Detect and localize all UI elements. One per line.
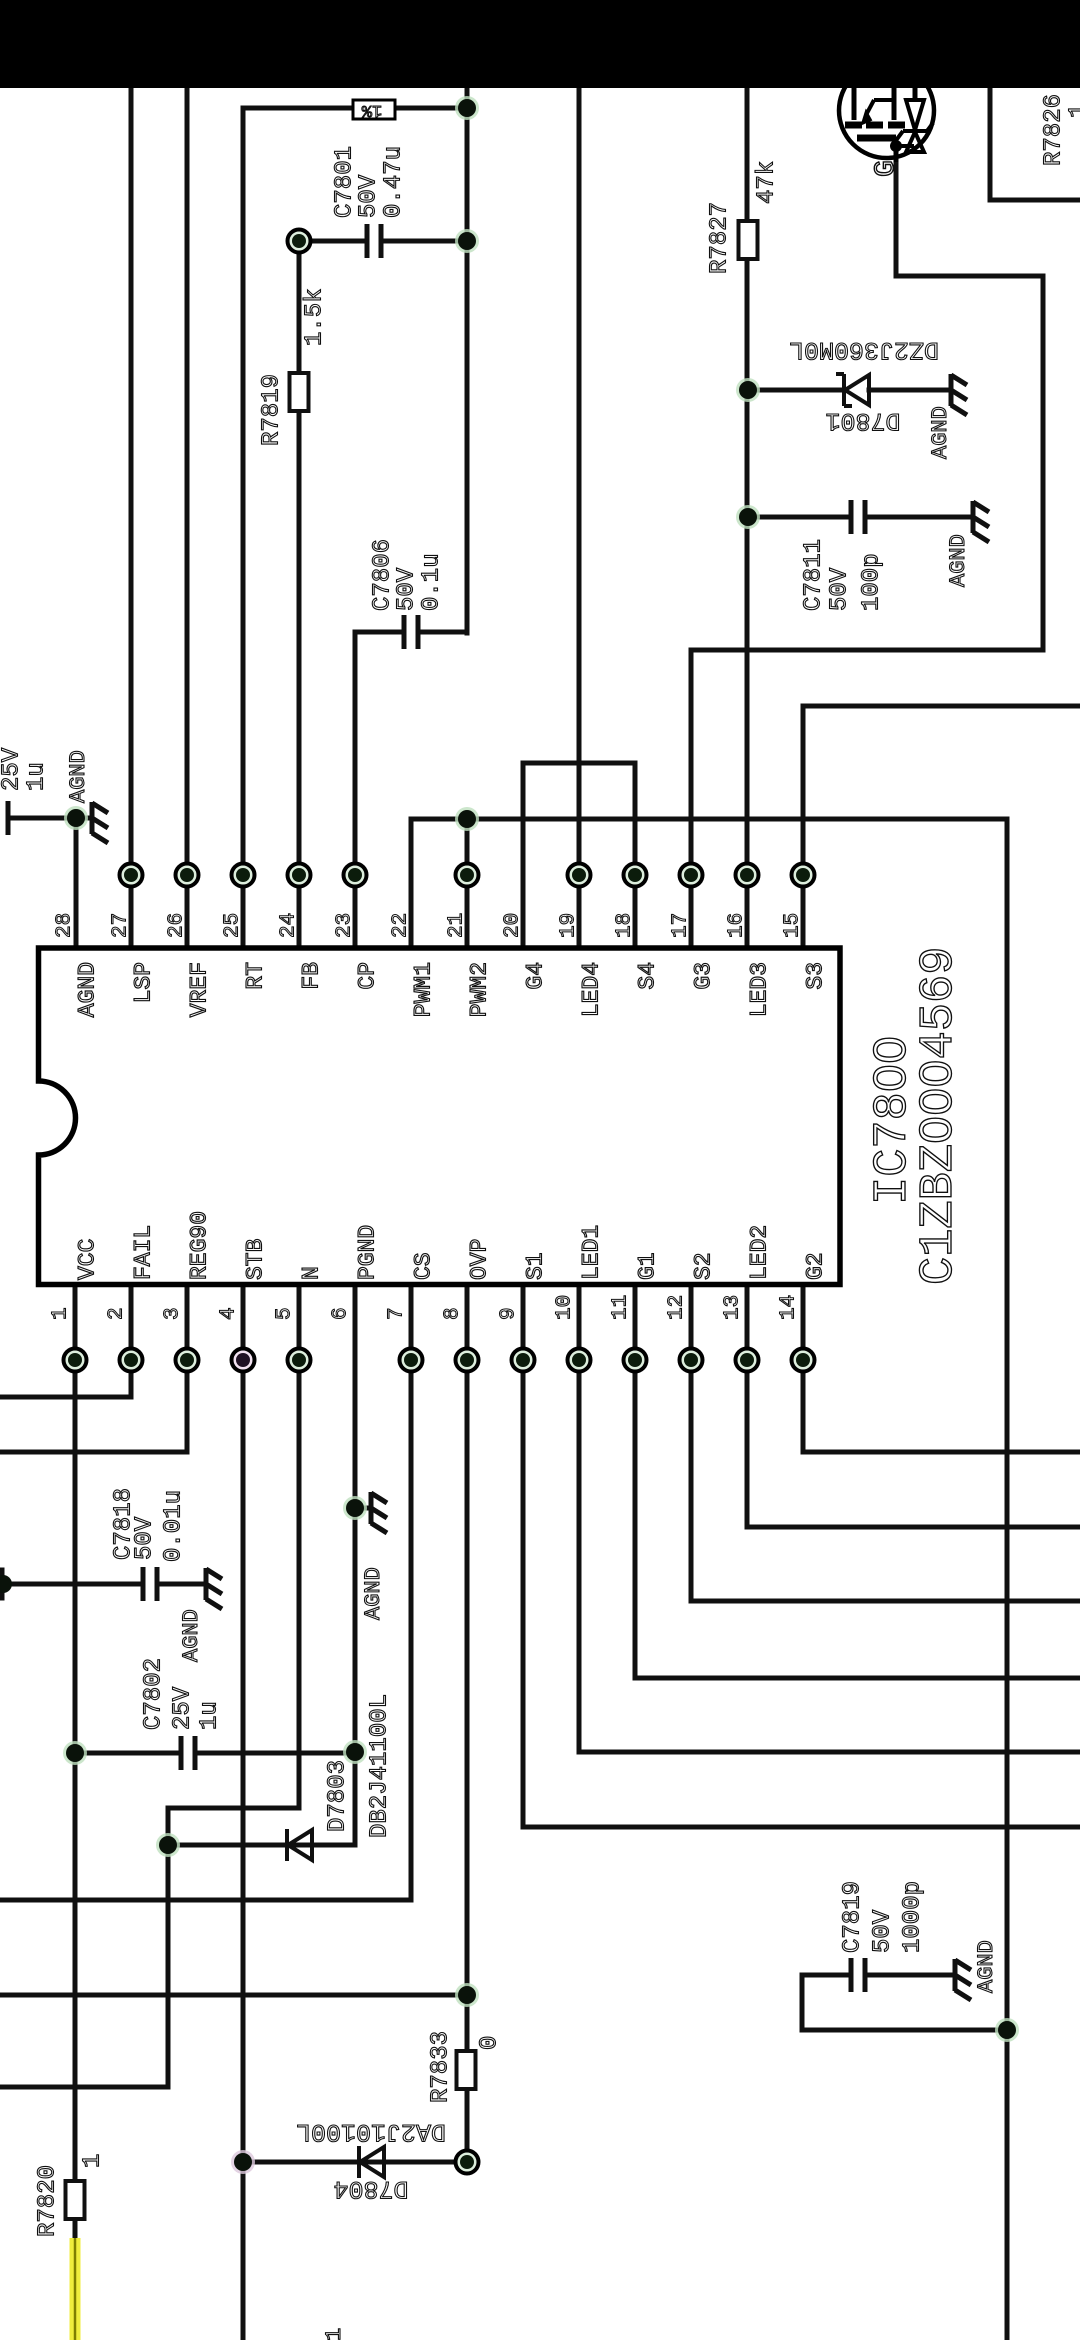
svg-text:LSP: LSP xyxy=(130,962,156,1003)
svg-text:2: 2 xyxy=(106,1307,129,1320)
wire G4 net pin20 xyxy=(521,763,526,945)
wire G1 out wire xyxy=(635,1676,1080,1681)
svg-text:S4: S4 xyxy=(634,962,660,990)
svg-text:6: 6 xyxy=(330,1307,353,1320)
svg-text:25V: 25V xyxy=(0,747,26,791)
transistor Q7800 MOSFET xyxy=(839,63,934,162)
svg-text:19: 19 xyxy=(558,913,581,938)
resistor R7833 xyxy=(457,2051,476,2089)
svg-text:50V: 50V xyxy=(356,174,383,218)
wire N net pin5 xyxy=(297,1287,302,1807)
svg-text:S2: S2 xyxy=(690,1252,716,1280)
svg-text:PWM1: PWM1 xyxy=(410,962,436,1017)
junction RT-PWM2 top xyxy=(455,96,479,120)
wire C7819 top right wire xyxy=(865,1973,955,1978)
junction D7804 left node xyxy=(231,2150,255,2174)
svg-text:OVP: OVP xyxy=(466,1239,492,1280)
svg-text:50V: 50V xyxy=(827,567,854,611)
via pin7 xyxy=(400,1349,423,1372)
wire C7801 right wire xyxy=(381,239,467,244)
svg-text:21: 21 xyxy=(446,913,469,938)
wire C7801 left wire xyxy=(299,239,367,244)
resistor R7827 xyxy=(739,221,758,259)
wire C7811 right wire xyxy=(865,515,973,520)
wire FB net lower pin24 xyxy=(297,412,302,945)
wire C7811 left wire xyxy=(748,515,851,520)
wire right bus vertical xyxy=(1005,819,1010,2340)
wire CP net pin23 xyxy=(353,632,358,945)
svg-text:9: 9 xyxy=(498,1307,521,1320)
svg-text:DB2J41100L: DB2J41100L xyxy=(367,1694,394,1838)
svg-text:LED4: LED4 xyxy=(578,962,604,1017)
svg-text:1: 1 xyxy=(322,2328,347,2340)
svg-text:1000p: 1000p xyxy=(900,1881,927,1953)
svg-text:G4: G4 xyxy=(522,962,548,990)
svg-text:27: 27 xyxy=(110,913,133,938)
junction C7819 node xyxy=(995,2018,1019,2042)
svg-text:PWM2: PWM2 xyxy=(466,962,492,1017)
svg-text:AGND: AGND xyxy=(946,534,971,587)
wire FAIL out wire xyxy=(0,1395,131,1400)
via pin4 xyxy=(232,1349,255,1372)
wire gate link vertical xyxy=(1041,276,1046,650)
junction D7801 node xyxy=(736,378,760,402)
svg-text:1u: 1u xyxy=(197,1701,224,1730)
wire C7819 bottom wire xyxy=(802,2028,1007,2033)
svg-text:47k: 47k xyxy=(754,161,781,204)
wire LED1 out wire xyxy=(579,1750,1080,1755)
wire S3 out wire xyxy=(803,704,1080,709)
svg-text:17: 17 xyxy=(670,913,693,938)
svg-text:AGND: AGND xyxy=(361,1567,386,1620)
svg-text:VCC: VCC xyxy=(74,1239,100,1280)
wire LED3 net upper pin16 xyxy=(745,86,750,222)
wire C7818 left wire xyxy=(0,1582,143,1587)
svg-text:LED3: LED3 xyxy=(746,962,772,1017)
svg-text:1: 1 xyxy=(50,1307,73,1320)
wire OVP lead below R7833 xyxy=(465,2089,470,2162)
via pin16 xyxy=(736,864,759,887)
svg-text:0: 0 xyxy=(477,2036,504,2050)
ground AGND C7811 xyxy=(973,501,989,542)
wire OVP out wire xyxy=(0,1993,467,1998)
svg-text:0.47u: 0.47u xyxy=(381,146,408,218)
via pin13 xyxy=(736,1349,759,1372)
via pin24 xyxy=(288,864,311,887)
svg-text:LED1: LED1 xyxy=(578,1225,604,1280)
IC U IC7800 body xyxy=(39,948,841,1285)
svg-text:C7819: C7819 xyxy=(840,1881,867,1953)
junction MOSFET gate node xyxy=(890,140,902,152)
svg-text:1.5k: 1.5k xyxy=(302,288,329,346)
wire PWM2 net lower pin21 xyxy=(465,819,470,945)
wire CS out wire xyxy=(0,1898,411,1903)
wire STB net pin4 xyxy=(241,1287,246,2340)
capacitor C7802 xyxy=(181,1736,195,1770)
via D7804 right xyxy=(456,2151,479,2174)
svg-text:AGND: AGND xyxy=(179,1609,204,1662)
svg-text:25V: 25V xyxy=(170,1686,197,1730)
wire S4 net pin18 xyxy=(633,763,638,945)
junction D7803 node xyxy=(156,1833,180,1857)
wire S2 net pin12 xyxy=(689,1287,694,1601)
svg-text:REG90: REG90 xyxy=(186,1211,212,1280)
svg-text:CS: CS xyxy=(410,1252,436,1280)
svg-text:28: 28 xyxy=(54,913,77,938)
svg-text:R7820: R7820 xyxy=(35,2165,62,2237)
svg-text:C7806: C7806 xyxy=(370,539,397,611)
via pin18 xyxy=(624,864,647,887)
wire pin28 AGND wire xyxy=(8,816,92,821)
resistor R7819 xyxy=(290,373,309,411)
diode D7804 xyxy=(359,2146,384,2178)
junction PGND gnd node xyxy=(343,1496,367,1520)
via pin17 xyxy=(680,864,703,887)
svg-text:16: 16 xyxy=(726,913,749,938)
wire C7819 left leg xyxy=(800,1975,805,2030)
svg-text:12: 12 xyxy=(666,1295,689,1320)
via pin15 xyxy=(792,864,815,887)
svg-text:VREF: VREF xyxy=(186,962,212,1017)
wire AGND stub pin28 xyxy=(74,818,79,945)
svg-text:7: 7 xyxy=(386,1307,409,1320)
svg-text:AGND: AGND xyxy=(974,1940,999,1993)
junction left edge node xyxy=(0,1575,12,1593)
svg-text:1u: 1u xyxy=(24,762,51,791)
via pin1 xyxy=(64,1349,87,1372)
junction PWM2 bus xyxy=(455,807,479,831)
svg-text:C1ZBZOOO4569: C1ZBZOOO4569 xyxy=(913,947,966,1285)
wire G1 net pin11 xyxy=(633,1287,638,1678)
svg-text:S3: S3 xyxy=(802,962,828,990)
wire D7801 right wire xyxy=(869,388,951,393)
svg-text:8: 8 xyxy=(442,1307,465,1320)
svg-text:26: 26 xyxy=(166,913,189,938)
svg-text:RT: RT xyxy=(242,962,268,990)
via pin21 xyxy=(456,864,479,887)
svg-text:10: 10 xyxy=(554,1295,577,1320)
capacitor C7819 xyxy=(851,1958,865,1992)
wire VCC net pin1 xyxy=(73,1287,78,2182)
wire D7803 left net xyxy=(166,1808,171,2087)
svg-text:15: 15 xyxy=(782,913,805,938)
wire FB net upper pin24 xyxy=(297,241,302,372)
wire highlighted VCC lead xyxy=(70,2238,81,2340)
svg-text:N: N xyxy=(298,1266,324,1280)
via pin12 xyxy=(680,1349,703,1372)
junction C7802 right node xyxy=(343,1740,367,1764)
capacitor C7801 xyxy=(367,224,381,258)
svg-text:FAIL: FAIL xyxy=(130,1225,156,1280)
wire LED2 out wire xyxy=(747,1525,1080,1530)
resistor R7820 xyxy=(66,2181,85,2219)
wire PWM2 net upper pin21 xyxy=(465,86,470,633)
capacitor C7811 xyxy=(851,500,865,534)
wire C7819 top left wire xyxy=(802,1973,851,1978)
wire G2 net pin14 xyxy=(801,1287,806,1452)
wire C7806 right wire xyxy=(419,630,467,635)
wire PWM1 net pin22 xyxy=(409,819,414,945)
wire left edge stub xyxy=(0,1570,5,1598)
svg-text:AGND: AGND xyxy=(66,750,91,803)
wire C7802 right wire xyxy=(195,1751,355,1756)
wire C7802 left wire xyxy=(75,1751,181,1756)
via pin26 xyxy=(176,864,199,887)
wire RT 1pct link xyxy=(243,106,467,111)
via pin11 xyxy=(624,1349,647,1372)
wire S1 net pin9 xyxy=(521,1287,526,1827)
svg-text:R7826: R7826 xyxy=(1041,94,1068,166)
wire LED1 net pin10 xyxy=(577,1287,582,1752)
svg-text:50V: 50V xyxy=(132,1516,159,1560)
junction C7811 node xyxy=(736,505,760,529)
via pin25 xyxy=(232,864,255,887)
svg-text:25: 25 xyxy=(222,913,245,938)
via pin23 xyxy=(344,864,367,887)
via pin19 xyxy=(568,864,591,887)
svg-text:AGND: AGND xyxy=(74,962,100,1017)
svg-text:0.01u: 0.01u xyxy=(161,1490,188,1562)
svg-text:CP: CP xyxy=(354,962,380,990)
wire D7804 wire xyxy=(243,2160,455,2165)
svg-text:LED2: LED2 xyxy=(746,1225,772,1280)
svg-text:DZ2J360M0L: DZ2J360M0L xyxy=(789,335,939,364)
svg-text:C7802: C7802 xyxy=(141,1658,168,1730)
diode D7803 xyxy=(287,1829,312,1861)
ground AGND C7818 xyxy=(206,1568,222,1609)
svg-text:G: G xyxy=(871,160,902,177)
wire LED2 net pin13 xyxy=(745,1287,750,1527)
wire LSP net pin27 xyxy=(129,86,134,945)
svg-text:5: 5 xyxy=(274,1307,297,1320)
svg-text:D7803: D7803 xyxy=(325,1760,352,1832)
svg-text:1%: 1% xyxy=(361,100,382,119)
svg-text:G2: G2 xyxy=(802,1252,828,1280)
svg-text:AGND: AGND xyxy=(928,406,953,459)
capacitor C7818 xyxy=(143,1567,157,1601)
svg-text:DA2J10100L: DA2J10100L xyxy=(296,2117,446,2146)
wire PGND net pin6 xyxy=(353,1287,358,1845)
svg-text:G1: G1 xyxy=(634,1252,660,1280)
svg-text:13: 13 xyxy=(722,1295,745,1320)
junction OVP node xyxy=(455,1983,479,2007)
junction pin28 AGND xyxy=(64,806,88,830)
svg-text:S1: S1 xyxy=(522,1252,548,1280)
wire REG90 net pin3 xyxy=(185,1287,190,1452)
wire REG90 out wire xyxy=(0,1450,187,1455)
svg-text:24: 24 xyxy=(278,913,301,938)
status bar xyxy=(0,0,1080,88)
wire PGND ground stub xyxy=(355,1506,371,1511)
svg-text:R7827: R7827 xyxy=(707,202,734,274)
svg-text:18: 18 xyxy=(614,913,637,938)
ground AGND PGND xyxy=(371,1492,387,1533)
via pin5 xyxy=(288,1349,311,1372)
wire FAIL net pin2 xyxy=(129,1287,134,1397)
via pin10 xyxy=(568,1349,591,1372)
via pin9 xyxy=(512,1349,535,1372)
svg-text:3: 3 xyxy=(162,1307,185,1320)
wire S1 out wire xyxy=(523,1825,1080,1830)
via pin2 xyxy=(120,1349,143,1372)
wire C7806 left wire xyxy=(355,630,404,635)
ground AGND pin28 xyxy=(92,802,108,843)
capacitor C7820 plate xyxy=(6,801,11,835)
wire G3 net pin17 xyxy=(689,650,694,945)
svg-text:1: 1 xyxy=(80,2154,107,2168)
svg-text:D7801: D7801 xyxy=(825,406,900,435)
wire VCC lead below R7820 xyxy=(73,2219,78,2240)
wire D7803 wire xyxy=(168,1843,355,1848)
svg-text:50V: 50V xyxy=(394,567,421,611)
svg-text:C7811: C7811 xyxy=(801,539,828,611)
svg-text:C7801: C7801 xyxy=(332,146,359,218)
via pin27 xyxy=(120,864,143,887)
svg-text:PGND: PGND xyxy=(354,1225,380,1280)
svg-text:0.1u: 0.1u xyxy=(419,553,446,611)
wire aux left wire xyxy=(0,2085,168,2090)
wire S2 out wire xyxy=(691,1599,1080,1604)
svg-text:FB: FB xyxy=(298,962,324,990)
junction C7802 left node xyxy=(63,1741,87,1765)
via C7801 left xyxy=(288,230,311,253)
wire C7818 right wire xyxy=(157,1582,206,1587)
tolerance box 1% xyxy=(353,100,395,119)
svg-text:4: 4 xyxy=(218,1307,241,1320)
wire LED4 net pin19 xyxy=(577,86,582,945)
wire G3 gate wire xyxy=(691,648,1043,653)
wire VREF net pin26 xyxy=(185,86,190,945)
svg-text:20: 20 xyxy=(502,913,525,938)
wire S3 net pin15 xyxy=(801,706,806,945)
svg-text:G3: G3 xyxy=(690,962,716,990)
ground AGND C7819 xyxy=(955,1959,971,2000)
svg-text:STB: STB xyxy=(242,1239,268,1280)
via pin14 xyxy=(792,1349,815,1372)
wire OVP net pin8 xyxy=(465,1287,470,2051)
svg-text:1: 1 xyxy=(1066,104,1080,118)
svg-text:D7804: D7804 xyxy=(333,2174,408,2203)
via pin3 xyxy=(176,1349,199,1372)
wire G4-S4 bracket xyxy=(523,761,635,766)
svg-text:23: 23 xyxy=(334,913,357,938)
wire G2 out wire xyxy=(803,1450,1080,1455)
wire MOSFET gate drop xyxy=(894,158,899,276)
svg-text:100p: 100p xyxy=(859,553,886,611)
ground AGND D7801 xyxy=(951,374,967,415)
via pin8 xyxy=(456,1349,479,1372)
svg-text:11: 11 xyxy=(610,1295,633,1320)
wire D7801 left wire xyxy=(748,388,844,393)
svg-text:R7819: R7819 xyxy=(259,374,286,446)
wire PWM bus wire xyxy=(411,817,1007,822)
wire R7826 wire xyxy=(990,198,1080,203)
svg-text:14: 14 xyxy=(778,1295,801,1320)
capacitor C7806 xyxy=(404,615,418,649)
wire RT net pin25 xyxy=(241,108,246,945)
svg-text:22: 22 xyxy=(390,913,413,938)
wire CS net pin7 xyxy=(409,1287,414,1900)
wire R7826 feed xyxy=(988,86,993,200)
svg-text:R7833: R7833 xyxy=(428,2031,455,2103)
diode D7801 xyxy=(836,374,869,406)
wire N link wire xyxy=(168,1806,299,1811)
wire LED3 net lower pin16 xyxy=(745,259,750,945)
junction C7801 right xyxy=(455,229,479,253)
svg-text:50V: 50V xyxy=(870,1909,897,1953)
wire gate link horizontal xyxy=(896,274,1043,279)
